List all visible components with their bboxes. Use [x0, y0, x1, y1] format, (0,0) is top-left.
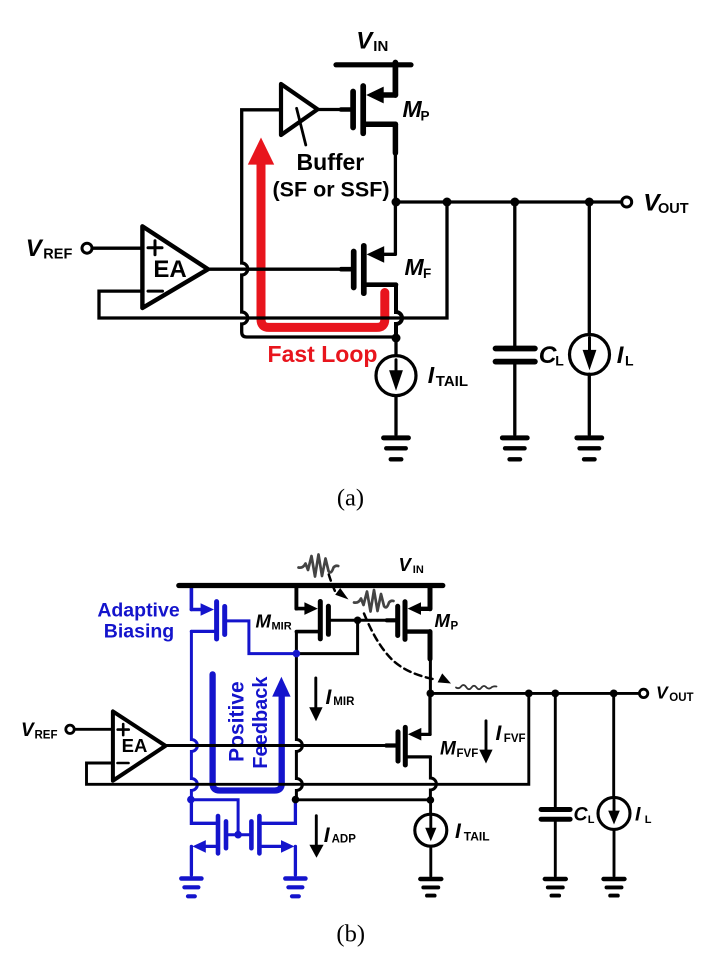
svg-text:I: I — [324, 824, 331, 847]
svg-text:Feedback: Feedback — [250, 676, 272, 769]
junction feedback tap (b) — [525, 690, 533, 698]
svg-text:REF: REF — [35, 729, 58, 741]
svg-text:ADP: ADP — [332, 834, 357, 846]
svg-text:C: C — [539, 342, 557, 369]
svg-text:P: P — [421, 109, 430, 124]
svg-text:I: I — [635, 804, 641, 826]
current annotation IFVF arrow — [479, 721, 492, 764]
ground (MA2 blue) — [285, 879, 305, 897]
svg-text:V: V — [656, 682, 669, 702]
label ITAIL (b) — [455, 820, 490, 843]
output net VOUT line (b) — [430, 692, 640, 695]
svg-text:(SF or SSF): (SF or SSF) — [272, 178, 389, 202]
label CL (b) — [574, 804, 595, 826]
transistor MFVF (b) — [398, 693, 430, 765]
svg-text:Buffer: Buffer — [297, 149, 365, 175]
wire EA feedback from VOUT (a) — [99, 202, 447, 318]
label VOUT (a) — [643, 189, 688, 217]
wire MF drain to tail node (a), hops over feedback line — [396, 285, 402, 338]
terminal VOUT (a) — [622, 197, 632, 207]
svg-text:(b): (b) — [336, 921, 365, 948]
ground (CL b) — [545, 879, 566, 896]
svg-text:V: V — [21, 720, 35, 741]
label VOUT (b) — [656, 682, 694, 703]
ground (IL a) — [577, 438, 602, 459]
junction IL tap (a) — [585, 198, 594, 207]
wire buffer output to MP gate (a) — [318, 108, 351, 111]
transistor MMIR (b) — [296, 586, 328, 639]
capacitor CL (a) — [496, 349, 535, 362]
wire CL to ground (b) — [554, 822, 557, 876]
svg-text:Biasing: Biasing — [104, 621, 174, 643]
wire gate mirror connection MMIR-MP (b) — [331, 619, 395, 622]
svg-text:EA: EA — [153, 256, 186, 283]
terminal VREF (b) — [66, 725, 74, 733]
attenuated ripple squiggle at VOUT — [456, 685, 497, 689]
svg-text:TAIL: TAIL — [436, 373, 468, 390]
positive feedback arrowhead (blue) — [272, 677, 290, 697]
label VIN (b) — [399, 554, 424, 576]
svg-text:Fast Loop: Fast Loop — [268, 341, 378, 367]
ground (CL a) — [502, 438, 527, 459]
label VREF (a) — [26, 235, 73, 263]
svg-text:OUT: OUT — [658, 201, 689, 217]
svg-text:V: V — [399, 554, 413, 575]
wire tail node to ITAIL (b) — [429, 800, 432, 814]
wire adaptive mirror gate tie (blue) — [191, 800, 238, 835]
label IL (a) — [617, 342, 634, 369]
svg-text:F: F — [423, 266, 431, 281]
label Positive Feedback (blue, rotated) — [226, 676, 273, 769]
ripple squiggle on mirror gate wire — [354, 590, 394, 612]
junction CL tap (a) — [510, 198, 519, 207]
label MP (b) — [435, 610, 459, 632]
svg-text:I: I — [496, 722, 503, 745]
wire EA output to MF gate (a) — [206, 268, 351, 271]
transistor MA2 adaptive mirror right (blue) — [251, 800, 295, 875]
wire MADP gate to mirror node (blue) — [227, 621, 296, 654]
svg-text:C: C — [574, 804, 589, 826]
ripple squiggle on VIN rail — [299, 555, 339, 577]
label CL (a) — [539, 342, 564, 369]
junction MADP drain node (blue) — [187, 796, 195, 804]
current source ITAIL (a) — [376, 356, 416, 396]
junction feedback tap (a) — [443, 198, 452, 207]
wire MFVF drain to tail node (b), hops over feedback — [430, 757, 436, 800]
svg-text:REF: REF — [43, 246, 72, 262]
wire MP drain to output node (a) — [394, 153, 397, 202]
wire VOUT to IL (a) — [588, 202, 591, 333]
label MFVF — [440, 739, 478, 761]
svg-text:L: L — [555, 353, 564, 369]
svg-text:V: V — [26, 235, 44, 262]
svg-text:I: I — [455, 820, 462, 843]
transistor MADP adaptive-bias PMOS (blue) — [191, 586, 224, 640]
dashed arrow rail ripple to gate node — [329, 575, 349, 600]
junction MFVF drain / ITAIL (b) — [427, 796, 435, 804]
svg-text:I: I — [428, 362, 435, 388]
wire MADP drain down to adaptive mirror (blue), hops over EA lines — [191, 631, 197, 799]
buffer U1 (a) — [281, 84, 318, 145]
ground (ITAIL a) — [384, 438, 409, 459]
wire VREF to EA+ (b) — [75, 728, 113, 731]
wire MP drain to VOUT node (b) — [429, 659, 432, 693]
svg-text:MIR: MIR — [272, 620, 292, 632]
junction MP drain / output (a) — [392, 198, 401, 207]
wire ITAIL to ground (a) — [394, 397, 397, 435]
terminal VREF (a) — [82, 243, 92, 253]
label MMIR — [256, 610, 292, 632]
label IMIR — [326, 686, 356, 709]
svg-text:IN: IN — [413, 564, 424, 576]
output net VOUT line (a) — [396, 200, 622, 203]
wire MMIR diode connection (b) — [296, 620, 357, 653]
wire VREF to EA+ (a) — [92, 247, 142, 250]
svg-text:I: I — [326, 686, 333, 709]
label MF (a) — [405, 254, 432, 281]
svg-text:L: L — [625, 352, 634, 368]
ground (ITAIL b) — [420, 879, 441, 896]
svg-text:P: P — [451, 620, 459, 632]
current source IL (a) — [570, 335, 610, 375]
junction MP drain node (b) — [427, 690, 435, 698]
svg-text:M: M — [405, 254, 425, 280]
current source ITAIL (b) — [415, 814, 447, 846]
wire MMIR drain down to tail node (b), hops over EA lines — [296, 632, 302, 800]
op-amp EA (a) — [142, 226, 208, 308]
label ITAIL (a) — [428, 362, 468, 390]
transistor MP (b) — [398, 586, 430, 660]
ground (IL b) — [604, 879, 625, 896]
wire CL to ground (a) — [513, 364, 516, 434]
svg-text:OUT: OUT — [669, 692, 693, 704]
FIGURE-B — [21, 554, 694, 947]
junction MMIR diode node (blue dot) — [293, 650, 301, 658]
svg-text:V: V — [356, 27, 374, 54]
tail net wire (b) — [296, 798, 430, 801]
junction CL tap (b) — [551, 690, 559, 698]
op-amp EA (b) — [113, 711, 166, 780]
fast loop highlight path (red) — [261, 163, 385, 327]
label IADP — [324, 824, 356, 847]
svg-text:FVF: FVF — [457, 748, 479, 760]
terminal VOUT (b) — [639, 689, 647, 697]
junction IL tap (b) — [610, 690, 618, 698]
junction mirror gate node (blue) — [234, 831, 242, 839]
power rail VIN (b) — [179, 583, 443, 588]
wire IL to ground (b) — [613, 830, 616, 877]
fast loop arrowhead (red) — [248, 138, 274, 165]
svg-text:L: L — [645, 814, 652, 826]
label VREF (b) — [21, 720, 58, 741]
svg-text:M: M — [403, 96, 423, 122]
svg-text:Adaptive: Adaptive — [97, 599, 180, 621]
svg-text:I: I — [617, 342, 625, 369]
svg-text:EA: EA — [122, 735, 148, 756]
svg-text:FVF: FVF — [504, 733, 526, 745]
dashed arrow gate ripple to VOUT (attenuated) — [364, 614, 451, 684]
current annotation IMIR arrow — [309, 678, 322, 721]
wire VOUT to CL (b) — [554, 693, 557, 806]
svg-text:M: M — [256, 610, 272, 631]
svg-text:IN: IN — [373, 38, 388, 55]
junction tail node (a) — [392, 334, 401, 343]
transistor MF (a) — [354, 202, 396, 293]
wire EA feedback from VOUT (b) — [87, 693, 529, 784]
svg-text:(a): (a) — [337, 485, 364, 512]
wire VOUT to CL (a) — [513, 202, 516, 346]
label Buffer (SF or SSF) — [272, 149, 389, 202]
label IFVF — [496, 722, 526, 745]
svg-text:M: M — [440, 739, 457, 760]
wire buffer input from fast node (a), hops over EA lines — [242, 110, 394, 337]
junction MMIR drain / tail (b) — [292, 796, 300, 804]
FIGURE-A — [26, 27, 689, 511]
capacitor CL (b) — [541, 810, 570, 820]
power rail VIN (a) — [336, 62, 411, 67]
svg-text:Positive: Positive — [226, 681, 249, 762]
positive feedback highlight loop (blue) — [213, 674, 282, 790]
ground (MA1 blue) — [181, 879, 201, 897]
current source IL (b) — [598, 797, 630, 829]
transistor MA1 adaptive mirror left (blue) — [191, 800, 249, 875]
junction gate node (b) — [354, 617, 362, 625]
wire VOUT to IL (b) — [612, 693, 615, 798]
label IL (b) — [635, 804, 652, 826]
wire ITAIL to ground (b) — [429, 847, 432, 877]
svg-text:TAIL: TAIL — [464, 829, 490, 843]
label MP (a) — [403, 96, 430, 124]
label VIN (a) — [356, 27, 388, 55]
wire tail node to ITAIL (a) — [394, 338, 397, 355]
wire IL to ground (a) — [588, 374, 591, 434]
svg-text:MIR: MIR — [333, 696, 355, 708]
transistor MP (a) — [353, 63, 395, 154]
wire EA output to MFVF gate (b) — [164, 744, 396, 747]
current annotation IADP arrow — [309, 816, 323, 858]
svg-text:M: M — [435, 610, 451, 631]
label Adaptive Biasing (blue) — [97, 599, 180, 642]
svg-text:L: L — [588, 814, 595, 826]
